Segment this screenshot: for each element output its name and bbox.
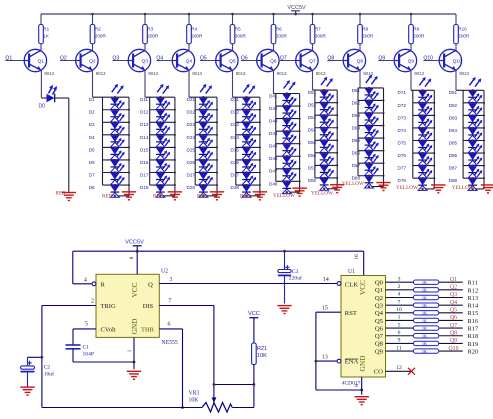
svg-text:D3: D3 bbox=[89, 122, 95, 127]
svg-text:Q4: Q4 bbox=[375, 310, 384, 317]
svg-text:104P: 104P bbox=[83, 351, 95, 357]
svg-text:R14: R14 bbox=[468, 303, 479, 310]
svg-text:R19: R19 bbox=[468, 341, 479, 348]
svg-text:D16: D16 bbox=[140, 160, 149, 165]
svg-text:D52: D52 bbox=[308, 103, 317, 108]
svg-text:9013: 9013 bbox=[148, 71, 158, 76]
svg-text:D28: D28 bbox=[187, 185, 196, 190]
svg-text:D81: D81 bbox=[449, 90, 458, 95]
svg-text:8: 8 bbox=[354, 384, 360, 387]
svg-text:D5: D5 bbox=[89, 147, 95, 152]
svg-text:D37: D37 bbox=[231, 172, 240, 177]
svg-text:D77: D77 bbox=[398, 166, 407, 171]
svg-text:D23: D23 bbox=[187, 122, 196, 127]
svg-text:Q0: Q0 bbox=[375, 280, 384, 287]
svg-text:D13: D13 bbox=[140, 122, 149, 127]
svg-text:Q2: Q2 bbox=[375, 295, 383, 302]
svg-text:D41: D41 bbox=[269, 93, 278, 98]
svg-text:CVolt: CVolt bbox=[101, 326, 116, 333]
svg-text:VR3: VR3 bbox=[189, 391, 200, 397]
svg-text:R5: R5 bbox=[235, 27, 241, 32]
svg-text:R18: R18 bbox=[468, 333, 479, 340]
svg-text:D15: D15 bbox=[140, 147, 149, 152]
svg-text:VCC: VCC bbox=[358, 280, 367, 295]
svg-text:D53: D53 bbox=[308, 115, 317, 120]
svg-text:2: 2 bbox=[91, 299, 94, 305]
svg-text:D73: D73 bbox=[398, 115, 407, 120]
svg-text:GND: GND bbox=[358, 355, 367, 372]
svg-text:9: 9 bbox=[398, 338, 401, 344]
svg-text:R10: R10 bbox=[458, 27, 467, 32]
svg-text:D11: D11 bbox=[140, 97, 149, 102]
svg-text:D12: D12 bbox=[140, 110, 149, 115]
svg-text:Q1: Q1 bbox=[375, 287, 383, 294]
svg-text:R6: R6 bbox=[276, 27, 282, 32]
svg-text:11: 11 bbox=[396, 345, 402, 351]
svg-text:C1: C1 bbox=[83, 344, 90, 350]
svg-text:D27: D27 bbox=[187, 172, 196, 177]
svg-text:D56: D56 bbox=[308, 153, 317, 158]
svg-text:2: 2 bbox=[398, 284, 401, 290]
svg-text:D26: D26 bbox=[187, 160, 196, 165]
svg-text:R: R bbox=[101, 281, 106, 288]
svg-text:Q6: Q6 bbox=[270, 59, 277, 65]
svg-text:D66: D66 bbox=[352, 151, 361, 156]
svg-text:Q5: Q5 bbox=[375, 318, 384, 325]
svg-text:9013: 9013 bbox=[44, 71, 54, 76]
svg-text:1K: 1K bbox=[422, 295, 428, 300]
svg-text:U1: U1 bbox=[348, 269, 355, 275]
svg-text:Q2: Q2 bbox=[450, 285, 457, 291]
svg-text:D51: D51 bbox=[308, 90, 317, 95]
svg-text:4: 4 bbox=[84, 277, 87, 283]
svg-text:D14: D14 bbox=[140, 135, 149, 140]
svg-text:R3: R3 bbox=[147, 27, 153, 32]
svg-text:200R: 200R bbox=[95, 34, 107, 39]
svg-text:220uf: 220uf bbox=[289, 274, 302, 281]
svg-text:C3: C3 bbox=[292, 269, 299, 275]
svg-text:VCC5V: VCC5V bbox=[125, 240, 144, 246]
svg-text:1: 1 bbox=[398, 315, 401, 321]
svg-text:3: 3 bbox=[170, 277, 173, 283]
svg-text:4: 4 bbox=[398, 292, 401, 298]
svg-text:9013: 9013 bbox=[414, 71, 424, 76]
svg-text:D75: D75 bbox=[398, 140, 407, 145]
svg-text:GND: GND bbox=[130, 319, 139, 335]
svg-text:D58: D58 bbox=[308, 178, 317, 183]
svg-text:Q5: Q5 bbox=[200, 55, 207, 61]
svg-text:D45: D45 bbox=[269, 144, 278, 149]
svg-text:YELLOW: YELLOW bbox=[311, 191, 333, 197]
svg-text:D33: D33 bbox=[231, 122, 240, 127]
svg-text:Q1: Q1 bbox=[5, 55, 12, 61]
svg-text:RED: RED bbox=[102, 194, 113, 200]
svg-text:D48: D48 bbox=[269, 181, 278, 186]
svg-text:10uf: 10uf bbox=[44, 371, 54, 378]
svg-text:C2: C2 bbox=[44, 365, 51, 371]
svg-text:12: 12 bbox=[396, 365, 402, 371]
svg-text:9013: 9013 bbox=[192, 71, 202, 76]
svg-text:200R: 200R bbox=[235, 34, 247, 39]
svg-text:1K: 1K bbox=[422, 326, 428, 331]
svg-text:RED: RED bbox=[240, 194, 251, 200]
svg-text:R15: R15 bbox=[468, 310, 479, 317]
svg-text:14: 14 bbox=[323, 277, 329, 283]
svg-text:R4: R4 bbox=[191, 27, 197, 32]
svg-text:Q7: Q7 bbox=[309, 59, 316, 65]
svg-text:D32: D32 bbox=[231, 110, 240, 115]
svg-text:DIS: DIS bbox=[143, 303, 154, 310]
svg-text:D76: D76 bbox=[398, 153, 407, 158]
svg-text:D84: D84 bbox=[449, 128, 458, 133]
svg-text:7: 7 bbox=[169, 299, 172, 305]
svg-text:THR: THR bbox=[141, 326, 155, 333]
svg-text:U2: U2 bbox=[161, 269, 168, 275]
svg-text:R13: R13 bbox=[468, 295, 479, 302]
svg-text:9013: 9013 bbox=[459, 71, 469, 76]
svg-text:D25: D25 bbox=[187, 147, 196, 152]
svg-text:1K: 1K bbox=[422, 280, 428, 285]
svg-text:Q: Q bbox=[148, 281, 153, 288]
svg-text:Q6: Q6 bbox=[450, 315, 457, 321]
svg-text:200R: 200R bbox=[413, 34, 425, 39]
svg-text:D44: D44 bbox=[269, 131, 278, 136]
svg-text:VCC: VCC bbox=[248, 311, 260, 317]
svg-text:D35: D35 bbox=[231, 147, 240, 152]
svg-text:1K: 1K bbox=[422, 334, 428, 339]
svg-text:1K: 1K bbox=[422, 349, 428, 354]
svg-text:D87: D87 bbox=[449, 166, 458, 171]
svg-text:R9: R9 bbox=[413, 27, 419, 32]
svg-text:YELLOW: YELLOW bbox=[273, 193, 295, 199]
svg-text:1K: 1K bbox=[422, 311, 428, 316]
svg-text:Q4: Q4 bbox=[450, 300, 457, 306]
svg-text:RED: RED bbox=[56, 192, 66, 197]
svg-text:6: 6 bbox=[168, 322, 171, 328]
svg-text:200R: 200R bbox=[276, 34, 288, 39]
svg-text:R21: R21 bbox=[257, 346, 267, 352]
svg-text:Q9: Q9 bbox=[408, 59, 415, 65]
svg-text:200R: 200R bbox=[191, 34, 203, 39]
svg-text:D7: D7 bbox=[89, 172, 95, 177]
svg-text:R17: R17 bbox=[468, 326, 479, 333]
svg-text:D55: D55 bbox=[308, 140, 317, 145]
svg-text:Q7: Q7 bbox=[280, 55, 287, 61]
svg-text:Q10: Q10 bbox=[449, 346, 459, 352]
svg-text:13: 13 bbox=[322, 355, 328, 361]
svg-text:D34: D34 bbox=[231, 135, 240, 140]
svg-text:Q8: Q8 bbox=[357, 59, 364, 65]
svg-text:5: 5 bbox=[398, 322, 401, 328]
svg-text:9013: 9013 bbox=[236, 71, 246, 76]
svg-text:D64: D64 bbox=[352, 125, 361, 130]
svg-text:9013: 9013 bbox=[363, 71, 373, 76]
svg-text:5: 5 bbox=[85, 322, 88, 328]
svg-text:D24: D24 bbox=[187, 135, 196, 140]
svg-text:Q9: Q9 bbox=[375, 348, 384, 355]
svg-text:9013: 9013 bbox=[96, 71, 106, 76]
svg-text:ENA: ENA bbox=[345, 359, 359, 366]
svg-text:Q3: Q3 bbox=[142, 59, 149, 65]
svg-text:1K: 1K bbox=[422, 341, 428, 346]
svg-text:VCC: VCC bbox=[130, 282, 139, 297]
svg-text:Q8: Q8 bbox=[375, 341, 384, 348]
svg-text:D63: D63 bbox=[352, 113, 361, 118]
svg-text:D54: D54 bbox=[308, 128, 317, 133]
svg-text:D72: D72 bbox=[398, 103, 407, 108]
svg-text:YELLOW: YELLOW bbox=[396, 185, 418, 191]
svg-text:D62: D62 bbox=[352, 100, 361, 105]
svg-text:RST: RST bbox=[345, 310, 357, 317]
svg-text:200R: 200R bbox=[458, 34, 470, 39]
svg-text:16: 16 bbox=[354, 254, 360, 260]
svg-text:D22: D22 bbox=[187, 110, 196, 115]
svg-text:Q2: Q2 bbox=[89, 59, 96, 65]
svg-text:Q3: Q3 bbox=[375, 302, 384, 309]
svg-text:D83: D83 bbox=[449, 115, 458, 120]
svg-text:Q1: Q1 bbox=[38, 59, 45, 65]
svg-text:Q7: Q7 bbox=[375, 333, 384, 340]
svg-text:1K: 1K bbox=[422, 318, 428, 323]
svg-text:D38: D38 bbox=[231, 185, 240, 190]
svg-text:1K: 1K bbox=[422, 288, 428, 293]
svg-text:CLK: CLK bbox=[345, 281, 358, 288]
svg-text:D43: D43 bbox=[269, 119, 278, 124]
svg-text:YELLOW: YELLOW bbox=[452, 185, 474, 191]
svg-text:1: 1 bbox=[127, 349, 133, 352]
svg-text:D61: D61 bbox=[352, 88, 361, 93]
svg-text:Q1: Q1 bbox=[450, 277, 457, 283]
svg-text:R12: R12 bbox=[468, 287, 479, 294]
svg-text:D1: D1 bbox=[89, 97, 95, 102]
svg-text:R16: R16 bbox=[468, 318, 479, 325]
svg-text:YELLOW: YELLOW bbox=[342, 181, 364, 187]
svg-text:D0: D0 bbox=[39, 104, 46, 110]
svg-text:D42: D42 bbox=[269, 106, 278, 111]
svg-text:6: 6 bbox=[398, 330, 401, 336]
svg-text:D17: D17 bbox=[140, 172, 149, 177]
svg-text:R1: R1 bbox=[43, 27, 49, 32]
svg-text:D68: D68 bbox=[352, 176, 361, 181]
svg-text:1K: 1K bbox=[43, 34, 50, 39]
svg-text:10: 10 bbox=[396, 307, 402, 313]
svg-text:RED: RED bbox=[153, 194, 164, 200]
svg-text:TRIG: TRIG bbox=[101, 303, 116, 310]
svg-text:Q6: Q6 bbox=[375, 325, 384, 332]
svg-text:Q3: Q3 bbox=[450, 292, 457, 298]
svg-text:Q4: Q4 bbox=[186, 59, 193, 65]
svg-text:D82: D82 bbox=[449, 103, 458, 108]
svg-text:D46: D46 bbox=[269, 156, 278, 161]
svg-text:D4: D4 bbox=[89, 135, 95, 140]
svg-text:Q10: Q10 bbox=[453, 59, 462, 65]
svg-text:D6: D6 bbox=[89, 160, 95, 165]
svg-text:3: 3 bbox=[398, 276, 401, 282]
svg-text:Q3: Q3 bbox=[112, 55, 119, 61]
svg-text:8: 8 bbox=[129, 256, 135, 259]
svg-text:R11: R11 bbox=[468, 280, 478, 287]
svg-text:D47: D47 bbox=[269, 169, 278, 174]
svg-text:Q2: Q2 bbox=[60, 55, 67, 61]
svg-text:10K: 10K bbox=[189, 398, 200, 404]
svg-text:Q8: Q8 bbox=[450, 330, 457, 336]
svg-text:1K: 1K bbox=[422, 303, 428, 308]
svg-text:Q5: Q5 bbox=[229, 59, 236, 65]
svg-text:VCC5V: VCC5V bbox=[287, 5, 306, 11]
svg-text:D74: D74 bbox=[398, 128, 407, 133]
svg-text:R7: R7 bbox=[315, 27, 321, 32]
svg-text:15: 15 bbox=[322, 306, 328, 312]
svg-text:Q4: Q4 bbox=[156, 55, 163, 61]
svg-text:Q9: Q9 bbox=[378, 55, 385, 61]
svg-text:Q10: Q10 bbox=[423, 55, 433, 61]
svg-text:200R: 200R bbox=[147, 34, 159, 39]
svg-text:7: 7 bbox=[398, 299, 401, 305]
svg-text:D21: D21 bbox=[187, 97, 196, 102]
svg-text:D57: D57 bbox=[308, 165, 317, 170]
svg-text:9013: 9013 bbox=[277, 71, 287, 76]
svg-text:D36: D36 bbox=[231, 160, 240, 165]
svg-text:R2: R2 bbox=[95, 27, 101, 32]
svg-text:Q7: Q7 bbox=[450, 323, 457, 329]
svg-text:R8: R8 bbox=[362, 27, 368, 32]
svg-text:D71: D71 bbox=[398, 90, 407, 95]
svg-text:D18: D18 bbox=[140, 185, 149, 190]
svg-text:D8: D8 bbox=[89, 185, 95, 190]
svg-text:Q5: Q5 bbox=[450, 308, 457, 314]
svg-text:D88: D88 bbox=[449, 178, 458, 183]
svg-text:D85: D85 bbox=[449, 140, 458, 145]
svg-text:D31: D31 bbox=[231, 97, 240, 102]
svg-text:Q8: Q8 bbox=[327, 55, 334, 61]
svg-text:D67: D67 bbox=[352, 163, 361, 168]
svg-text:CO: CO bbox=[374, 369, 383, 376]
svg-text:RED: RED bbox=[197, 194, 208, 200]
svg-text:9013: 9013 bbox=[316, 71, 326, 76]
svg-text:D2: D2 bbox=[89, 110, 95, 115]
svg-text:D86: D86 bbox=[449, 153, 458, 158]
svg-text:200R: 200R bbox=[315, 34, 327, 39]
svg-text:Q9: Q9 bbox=[450, 338, 457, 344]
svg-text:Q6: Q6 bbox=[241, 55, 248, 61]
svg-text:D65: D65 bbox=[352, 138, 361, 143]
svg-text:NE555: NE555 bbox=[161, 340, 178, 346]
svg-text:R20: R20 bbox=[468, 348, 479, 355]
svg-text:10K: 10K bbox=[257, 353, 267, 359]
svg-text:D78: D78 bbox=[398, 178, 407, 183]
svg-text:200R: 200R bbox=[362, 34, 374, 39]
